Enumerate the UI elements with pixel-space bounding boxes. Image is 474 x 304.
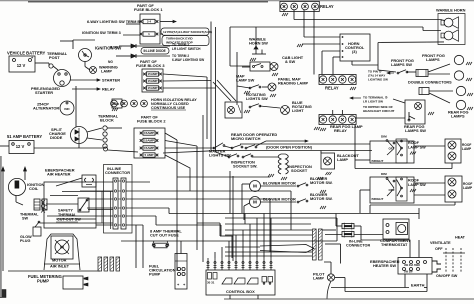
svg-text:PLUG: PLUG <box>20 239 31 243</box>
svg-text:RELAY: RELAY <box>334 128 347 133</box>
svg-text:(3): (3) <box>352 49 357 54</box>
svg-text:AIR HEATER: AIR HEATER <box>47 172 71 177</box>
svg-text:FUSE BLOCK 2: FUSE BLOCK 2 <box>137 119 166 124</box>
svg-text:LAMP: LAMP <box>462 147 472 151</box>
svg-text:SAFETY: SAFETY <box>58 209 73 213</box>
svg-text:5 AMP: 5 AMP <box>144 153 153 157</box>
svg-text:M: M <box>253 184 257 189</box>
svg-text:NG: NG <box>108 60 113 64</box>
svg-text:RELAY: RELAY <box>320 4 334 9</box>
svg-text:CONTINUOUS USE: CONTINUOUS USE <box>151 106 186 110</box>
svg-text:SOCKET: SOCKET <box>291 168 308 173</box>
svg-text:OFF: OFF <box>435 247 443 251</box>
svg-text:CONNECTOR: CONNECTOR <box>105 170 130 175</box>
svg-text:HEATER SW: HEATER SW <box>373 263 396 268</box>
svg-text:MOTOR SW.: MOTOR SW. <box>310 196 333 201</box>
svg-text:BLOCK: BLOCK <box>100 118 114 123</box>
svg-text:MICRO SWITCH: MICRO SWITCH <box>231 136 261 141</box>
svg-text:RELAY: RELAY <box>325 86 339 91</box>
svg-text:IGNITION SW TERM 3: IGNITION SW TERM 3 <box>82 31 121 35</box>
svg-text:3 4: 3 4 <box>147 20 151 24</box>
svg-text:LAMPS SW: LAMPS SW <box>391 62 412 67</box>
svg-text:BLOWER MOTOR: BLOWER MOTOR <box>263 181 296 186</box>
svg-text:15AMP: 15AMP <box>148 79 158 83</box>
svg-text:M: M <box>253 200 257 205</box>
svg-text:B SW: B SW <box>110 46 119 50</box>
svg-text:LIGHTING SW: LIGHTING SW <box>368 78 388 82</box>
svg-text:LIGHTS SW: LIGHTS SW <box>209 153 231 158</box>
svg-text:DIODE: DIODE <box>50 135 63 140</box>
svg-text:IND: IND <box>64 107 70 111</box>
svg-text:LAMP: LAMP <box>463 186 473 190</box>
svg-text:LR LIGHT SWITCH: LR LIGHT SWITCH <box>172 47 201 51</box>
svg-text:STARTER: STARTER <box>35 90 53 95</box>
svg-text:LAMP SW: LAMP SW <box>408 183 426 187</box>
svg-text:6-WAY LIGHTING SW TERM B: 6-WAY LIGHTING SW TERM B <box>87 20 140 24</box>
svg-text:ROOF: ROOF <box>408 179 420 183</box>
svg-text:RELAY: RELAY <box>102 87 115 92</box>
svg-text:PUMP: PUMP <box>149 272 161 277</box>
svg-text:FUSE BLOCK 1: FUSE BLOCK 1 <box>134 7 163 12</box>
svg-text:DOUBLE CONNECTORS: DOUBLE CONNECTORS <box>408 81 452 85</box>
svg-text:PUMP: PUMP <box>37 279 49 284</box>
svg-text:HEAT: HEAT <box>455 236 466 240</box>
svg-text:FUSE BLOCK 3: FUSE BLOCK 3 <box>136 63 165 68</box>
svg-text:LAMP: LAMP <box>313 276 324 281</box>
svg-text:LAMP: LAMP <box>337 157 348 162</box>
svg-text:15AMP: 15AMP <box>148 72 158 76</box>
svg-text:POST: POST <box>49 55 60 60</box>
svg-text:LAMP SW: LAMP SW <box>236 78 255 83</box>
svg-text:12 PIN(7A)14-WAY SOCKET(AUX): 12 PIN(7A)14-WAY SOCKET(AUX) <box>163 30 212 34</box>
svg-text:THERMOSTAT: THERMOSTAT <box>381 242 408 247</box>
svg-text:STARTER: STARTER <box>102 78 120 83</box>
svg-text:CONNECTOR: CONNECTOR <box>346 244 370 248</box>
svg-text:MOTOR: MOTOR <box>52 258 67 263</box>
svg-text:(DOOR OPEN POSITION): (DOOR OPEN POSITION) <box>266 145 313 150</box>
svg-text:DIM: DIM <box>381 172 387 176</box>
svg-text:ON/OFF SW: ON/OFF SW <box>436 274 458 278</box>
svg-text:& SW: & SW <box>285 59 295 64</box>
svg-text:LAMP: LAMP <box>101 69 112 74</box>
svg-text:15AMP: 15AMP <box>144 146 154 150</box>
svg-text:LAMPS: LAMPS <box>451 114 465 119</box>
svg-text:LIGHT: LIGHT <box>292 108 304 113</box>
svg-text:LAMPS SW: LAMPS SW <box>405 128 426 133</box>
svg-text:CUT-OUT SW: CUT-OUT SW <box>57 218 81 222</box>
svg-text:HORN SW: HORN SW <box>249 41 268 46</box>
svg-text:51 AMP BATTERY: 51 AMP BATTERY <box>7 134 42 139</box>
svg-text:ROOF: ROOF <box>408 141 420 145</box>
svg-text:VENTILATE: VENTILATE <box>430 241 451 245</box>
svg-text:12 V: 12 V <box>16 144 25 149</box>
svg-text:MOTOR SW.: MOTOR SW. <box>310 180 333 185</box>
svg-text:SW: SW <box>22 217 29 221</box>
svg-text:SOCKET SW.: SOCKET SW. <box>233 164 257 169</box>
svg-text:15AMP: 15AMP <box>148 86 158 90</box>
svg-text:15AMP: 15AMP <box>144 131 154 135</box>
svg-text:6-WAY LIGHTING SW: 6-WAY LIGHTING SW <box>172 58 205 62</box>
svg-text:COIL: COIL <box>29 186 39 191</box>
svg-text:15AMP: 15AMP <box>144 139 154 143</box>
svg-text:BRIGHT: BRIGHT <box>372 159 384 163</box>
svg-text:CUT OUT FUSE: CUT OUT FUSE <box>150 233 179 238</box>
svg-text:12 V: 12 V <box>17 63 26 68</box>
svg-text:LR LIGHT SW: LR LIGHT SW <box>363 100 383 104</box>
svg-text:WARBLE HORN: WARBLE HORN <box>436 8 466 13</box>
svg-text:LAMPS: LAMPS <box>426 57 440 62</box>
svg-text:IN-LINE DIODE: IN-LINE DIODE <box>144 49 166 53</box>
svg-text:HEADLIGHT CIRCUIT: HEADLIGHT CIRCUIT <box>363 109 395 113</box>
svg-text:LIGHTS SW: LIGHTS SW <box>246 96 268 101</box>
svg-text:EARTH: EARTH <box>411 283 425 288</box>
svg-text:READING LAMP: READING LAMP <box>278 81 308 86</box>
svg-text:BRIGHT: BRIGHT <box>372 197 384 201</box>
svg-text:30 31: 30 31 <box>207 281 215 285</box>
svg-text:CONTROL BOX: CONTROL BOX <box>226 289 255 294</box>
svg-text:AW 30A SWO: AW 30A SWO <box>404 264 420 267</box>
svg-text:SW 3W: SW 3W <box>404 271 413 274</box>
svg-text:DIM: DIM <box>381 135 387 139</box>
svg-text:ALTERNATOR: ALTERNATOR <box>33 106 59 111</box>
